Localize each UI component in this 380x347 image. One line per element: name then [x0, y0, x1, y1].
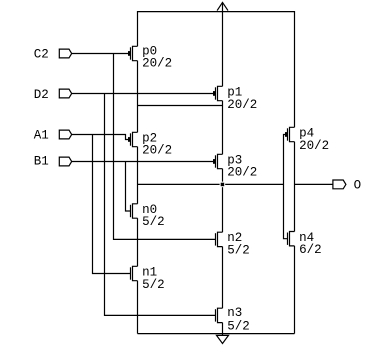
transistor p1	[218, 86, 223, 100]
transistor n0	[133, 204, 138, 218]
svg-text:20/2: 20/2	[299, 139, 329, 153]
power VDD arrow	[222, 2, 224, 86]
node output junction dot	[221, 183, 225, 187]
wire C2 to p0 gate	[72, 53, 129, 55]
svg-text:5/2: 5/2	[227, 243, 250, 257]
wire A1 feed vertical to n1 gate	[93, 135, 131, 274]
svg-text:D2: D2	[34, 88, 49, 102]
wire inverter drain to O pin	[295, 183, 333, 185]
svg-text:O: O	[354, 179, 362, 193]
wire mid rail p3 to n2	[222, 169, 224, 233]
wire left rail p2 to n0	[137, 147, 139, 204]
wire D2 feed vertical to n3 gate	[105, 94, 216, 316]
wire VDD top rail with left and right rail tops	[138, 12, 295, 128]
pin C2	[59, 49, 71, 58]
svg-text:n3: n3	[227, 306, 242, 320]
wire link left rail to mid rail	[138, 105, 223, 107]
wire B1 feed vertical to n0 gate	[126, 162, 131, 212]
svg-text:C2: C2	[34, 48, 49, 62]
wire AOI output to inverter input	[138, 183, 284, 185]
svg-text:20/2: 20/2	[142, 144, 172, 158]
wire A1 to p2 gate	[72, 135, 129, 140]
wire inverter gate link p4-n4	[284, 135, 288, 239]
pin D2	[59, 89, 71, 98]
svg-text:A1: A1	[34, 128, 49, 142]
wire mid rail p1 to p3	[222, 101, 224, 155]
transistor n1	[133, 266, 138, 280]
wire right rail n4 to ground rail	[294, 246, 296, 334]
svg-text:20/2: 20/2	[227, 166, 257, 180]
node output junction halo	[220, 182, 226, 188]
wire left rail n1 to ground rail	[137, 281, 139, 334]
svg-text:6/2: 6/2	[299, 243, 322, 257]
transistor p4	[290, 127, 295, 141]
wire left rail p0 to p2	[137, 61, 139, 133]
pin B1	[59, 157, 71, 166]
pin A1	[59, 130, 71, 139]
wire mid rail n2 to n3	[222, 247, 224, 309]
wire ground bottom rail	[138, 333, 295, 335]
ground symbol	[217, 335, 229, 343]
transistor n2	[218, 232, 223, 246]
wire right rail p4 to n4	[294, 142, 296, 232]
svg-text:B1: B1	[34, 155, 49, 169]
svg-text:20/2: 20/2	[227, 98, 257, 112]
wire C2 feed vertical to n2 gate	[114, 54, 216, 240]
svg-text:5/2: 5/2	[142, 215, 165, 229]
transistor n3	[218, 308, 223, 322]
svg-text:5/2: 5/2	[142, 278, 165, 292]
wire mid rail n3 to ground rail	[222, 323, 224, 336]
transistor p2	[133, 132, 138, 146]
wire D2 to p1 gate	[72, 93, 214, 95]
svg-text:5/2: 5/2	[227, 319, 250, 333]
wire left rail n0 to n1	[137, 218, 139, 266]
transistor n4	[290, 232, 295, 246]
svg-text:20/2: 20/2	[142, 57, 172, 71]
pin O	[333, 180, 346, 189]
wire B1 to p3 gate	[72, 161, 214, 163]
transistor p0	[133, 46, 138, 60]
transistor p3	[218, 154, 223, 168]
